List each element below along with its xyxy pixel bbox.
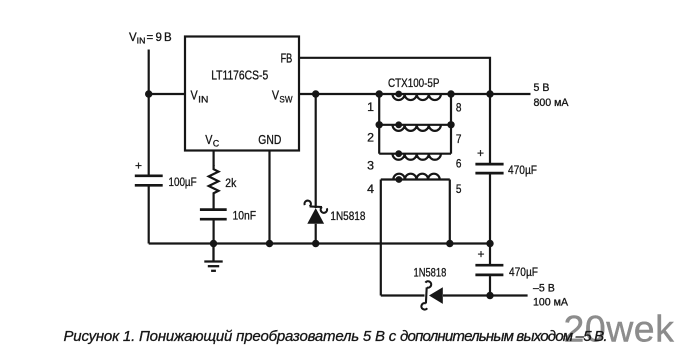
svg-text:–5 В: –5 В	[533, 282, 555, 294]
node: pin 8	[447, 90, 454, 97]
svg-text:8: 8	[456, 101, 462, 115]
svg-text:V: V	[205, 133, 213, 147]
wire: winding row 3 line	[379, 153, 451, 155]
svg-text:+: +	[477, 146, 484, 160]
svg-text:3: 3	[367, 159, 374, 173]
svg-text:100µF: 100µF	[169, 175, 197, 189]
ground	[204, 244, 222, 271]
svg-text:IN: IN	[198, 94, 208, 105]
wire: pin5 down to ground rail	[449, 180, 451, 244]
svg-text:10nF: 10nF	[233, 209, 257, 223]
svg-text:100 мА: 100 мА	[533, 296, 569, 308]
wire: pin4 down to -5V rail	[380, 180, 382, 296]
node: 10nF ground junction	[210, 240, 217, 247]
svg-text:7: 7	[456, 132, 462, 146]
svg-text:470µF: 470µF	[508, 163, 537, 177]
svg-text:C: C	[213, 139, 219, 150]
wire: transformer right bar pins 8-7-6	[450, 94, 452, 154]
wire: input vertical left rail	[148, 50, 150, 176]
inductor winding 2-7	[393, 125, 441, 131]
wire: catch diode vertical	[315, 94, 317, 208]
node: -5V output junction	[486, 292, 493, 299]
node: pin 7	[447, 121, 454, 128]
capacitor C1 100uF	[135, 176, 163, 186]
svg-text:5: 5	[456, 182, 462, 196]
svg-text:800 мА: 800 мА	[534, 97, 570, 109]
wire: VSW / 5V output run	[299, 93, 531, 95]
svg-text:1N5818: 1N5818	[330, 209, 365, 223]
svg-text:4: 4	[367, 182, 374, 196]
diode D1 1N5818 (vertical catch diode)	[305, 201, 366, 224]
wire: GND pin down	[268, 151, 270, 244]
wire: winding row 2 line	[379, 124, 451, 126]
svg-text:Рисунок 1. Понижающий преобраз: Рисунок 1. Понижающий преобразователь 5 …	[64, 328, 607, 345]
node: diode anode junction	[312, 240, 319, 247]
node: GND pin junction	[266, 240, 273, 247]
wire: ground rail bottom	[149, 242, 490, 244]
wire: transformer left bar pins 1-2-3	[378, 94, 380, 154]
node: VIN rail junction	[145, 90, 152, 97]
svg-text:6: 6	[456, 157, 462, 171]
wire: winding row 4 line	[381, 178, 450, 180]
svg-text:V: V	[191, 89, 199, 103]
svg-text:5 В: 5 В	[534, 82, 550, 94]
node: VSW / diode junction	[312, 90, 319, 97]
wire: resistor to 10nF	[213, 196, 215, 209]
svg-text:1N5818: 1N5818	[414, 266, 447, 280]
node: 5V output junction	[486, 90, 493, 97]
capacitor C4 470uF (bottom)	[475, 265, 503, 275]
inductor winding 1-8	[393, 94, 441, 100]
svg-text:CTX100-5P: CTX100-5P	[388, 76, 440, 90]
node: cap stack ground junction	[486, 240, 493, 247]
svg-text:LT1176CS-5: LT1176CS-5	[211, 69, 268, 83]
node: pin 1	[376, 90, 383, 97]
node: pin 5 ground junction	[446, 240, 453, 247]
inductor winding 3-6	[393, 154, 441, 160]
svg-text:1: 1	[367, 100, 374, 114]
wire: right column cap stack	[489, 94, 491, 163]
svg-text:SW: SW	[279, 94, 292, 105]
wire: 10nF to ground rail	[213, 219, 215, 243]
resistor R1 2k	[209, 165, 219, 196]
capacitor C2 10nF	[200, 210, 227, 220]
wire: -5V rail	[381, 294, 425, 296]
node: pin 2	[376, 121, 383, 128]
svg-text:+: +	[478, 247, 485, 261]
wire: FB top run	[299, 58, 490, 94]
wire: VC pin down	[213, 151, 215, 167]
svg-text:VIN = 9 В: VIN = 9 В	[129, 32, 172, 46]
op-amp / IC U1 LT1176CS-5 box	[185, 37, 299, 151]
svg-text:+: +	[135, 159, 142, 173]
diode D2 1N5818 (-5V rectifier, horizontal)	[414, 266, 447, 310]
svg-text:470µF: 470µF	[509, 265, 538, 279]
inductor winding 4-5	[393, 174, 439, 180]
svg-text:FB: FB	[281, 51, 293, 65]
svg-text:2: 2	[367, 131, 374, 145]
wire: VIN horizontal to IC	[149, 93, 185, 95]
capacitor C3 470uF (top)	[475, 164, 503, 173]
svg-text:2k: 2k	[225, 176, 237, 190]
svg-text:GND: GND	[258, 133, 281, 147]
